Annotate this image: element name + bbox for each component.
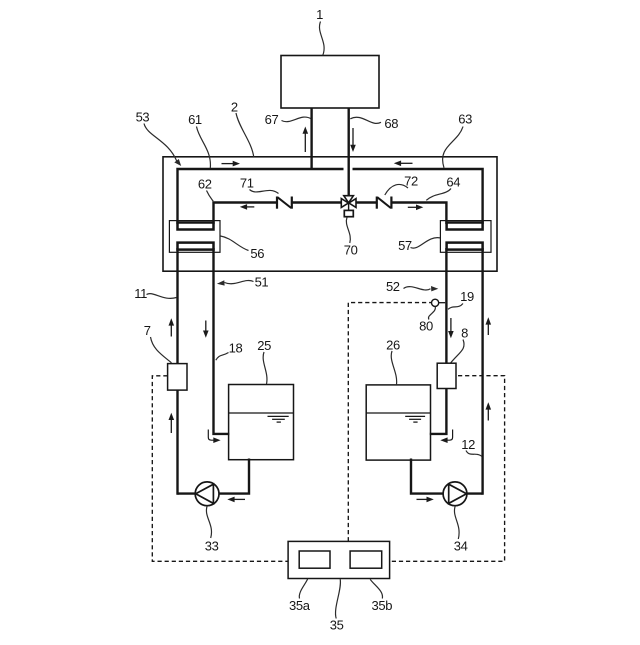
wire pipe 62: [214, 203, 278, 225]
leader 62: [207, 191, 214, 202]
svg-text:80: 80: [419, 319, 433, 334]
heat exchanger 56 body: [169, 221, 220, 253]
leader 19: [448, 304, 463, 310]
sensor 80: [432, 299, 439, 306]
wire pipe between valve 70 and valve 72: [356, 201, 377, 203]
svg-text:25: 25: [257, 338, 271, 353]
duct flow arrow left (right side): [394, 161, 413, 167]
controller box 35: [288, 541, 390, 578]
svg-text:53: 53: [136, 109, 150, 124]
valve 70 actuator box: [344, 210, 353, 216]
heat exchanger 56 bottom tube: [178, 243, 214, 250]
flow arrow up on pipe 11 (upper): [169, 318, 175, 336]
flow arrow up on pipe 12 (upper): [486, 317, 492, 335]
leader 12: [466, 451, 482, 457]
leader 53 with arrowhead: [144, 124, 181, 167]
leader 61: [197, 127, 211, 169]
leader 63: [443, 127, 463, 168]
inner duct line 61 left+top: [178, 169, 344, 224]
wire pipe 18 / 51: [214, 248, 230, 434]
leader 68: [350, 117, 381, 123]
svg-text:33: 33: [205, 538, 219, 553]
leader 8: [451, 340, 464, 363]
svg-text:56: 56: [250, 246, 264, 261]
leader 57: [411, 238, 441, 248]
flow arrow down on pipe 68: [350, 128, 356, 152]
svg-text:68: 68: [384, 116, 398, 131]
wire pipe 19 / 52: [430, 248, 447, 434]
svg-text:19: 19: [460, 289, 474, 304]
leader 11: [147, 294, 177, 299]
svg-text:18: 18: [229, 340, 243, 355]
three-way valve 70 left triangle: [341, 199, 348, 208]
svg-text:35b: 35b: [372, 598, 393, 613]
wire tank 26 outlet to pump 34: [411, 459, 483, 494]
label 51 with arrowhead: [217, 275, 268, 290]
svg-text:12: 12: [461, 437, 475, 452]
svg-text:11: 11: [134, 286, 147, 301]
flow arrow up on pipe 11 (lower): [169, 413, 175, 433]
tank 26 inlet arrow: [440, 430, 452, 444]
leader 67: [282, 117, 312, 122]
three-way valve 70 top triangle: [344, 196, 354, 203]
dashed control boundary left/bottom/right: [152, 376, 504, 562]
dashed sensor line to controller: [348, 303, 431, 542]
wire pipe 67: [310, 108, 312, 170]
inner duct line 63 top+right: [353, 169, 483, 224]
sensor 80 tick: [439, 302, 446, 304]
wire pipe 64: [391, 203, 446, 225]
check valve 71: [277, 197, 292, 209]
leader 71: [250, 190, 279, 194]
leader 35b: [370, 579, 382, 598]
casing 53: [163, 157, 497, 271]
flow arrow into pump 33: [227, 497, 245, 503]
leader 35: [336, 579, 341, 618]
heat exchanger 57 body: [440, 221, 491, 253]
check valve 72: [377, 197, 392, 209]
leader 1: [319, 22, 324, 56]
svg-text:63: 63: [458, 112, 472, 127]
svg-text:62: 62: [198, 177, 212, 192]
heat exchanger 57 top tube: [447, 223, 483, 230]
tank 25: [229, 385, 294, 460]
wire pipe 68: [348, 108, 350, 197]
svg-text:51: 51: [255, 275, 269, 290]
wire pipe between valve 71 and valve 70: [292, 201, 341, 203]
leader 18: [216, 353, 229, 361]
svg-text:2: 2: [231, 99, 238, 114]
svg-text:35: 35: [330, 618, 344, 633]
flow arrow left on pipe 62: [240, 204, 255, 210]
flow arrow up on pipe 12 (lower): [486, 402, 492, 420]
pump 33: [195, 482, 219, 506]
tank 25 inlet arrow: [208, 430, 220, 444]
tank 26: [366, 385, 430, 460]
svg-text:8: 8: [461, 325, 468, 340]
svg-text:57: 57: [398, 238, 412, 253]
leader 33: [206, 506, 211, 538]
wire tank 25 outlet to pump 33: [178, 459, 250, 494]
component box 8: [437, 363, 456, 388]
leader 72: [385, 184, 408, 195]
pump 34: [443, 482, 467, 506]
svg-text:34: 34: [454, 539, 468, 554]
svg-text:7: 7: [144, 323, 151, 338]
svg-text:71: 71: [240, 176, 254, 191]
flow arrow down on pipe 19: [448, 318, 454, 338]
leader 7: [151, 337, 172, 363]
svg-text:61: 61: [188, 112, 202, 127]
heat exchanger 56 top tube: [178, 223, 214, 230]
svg-text:70: 70: [344, 243, 358, 258]
flow arrow into pump 34: [417, 497, 434, 503]
three-way valve 70 right triangle: [349, 199, 356, 208]
component box 7: [168, 364, 187, 391]
svg-text:67: 67: [265, 112, 279, 127]
wire pipe 12: [481, 248, 483, 495]
leader 80: [428, 307, 435, 320]
controller sub box 35a: [299, 551, 330, 568]
leader 56: [221, 236, 249, 251]
wire pipe 11: [176, 248, 178, 495]
flow arrow right on pipe 64: [408, 205, 424, 211]
leader 25: [263, 352, 267, 384]
leader 35a: [299, 579, 307, 599]
controller sub box 35b: [350, 551, 382, 568]
svg-text:64: 64: [446, 175, 460, 190]
svg-text:26: 26: [386, 337, 400, 352]
leader 34: [454, 506, 459, 539]
leader 70: [346, 217, 350, 243]
valve 70 actuator stem: [348, 203, 350, 211]
leader 26: [391, 351, 396, 384]
svg-text:52: 52: [386, 279, 400, 294]
svg-text:1: 1: [316, 7, 323, 22]
leader 2: [236, 113, 254, 158]
heat exchanger 57 bottom tube: [447, 243, 483, 250]
label 52 with arrowhead: [386, 279, 438, 294]
flow arrow down on pipe 18: [203, 321, 209, 338]
duct flow arrow right (left side): [222, 161, 241, 167]
svg-text:35a: 35a: [289, 598, 311, 613]
flow arrow up on pipe 67: [303, 127, 309, 153]
device box 1: [281, 56, 379, 109]
leader 64: [426, 189, 451, 201]
